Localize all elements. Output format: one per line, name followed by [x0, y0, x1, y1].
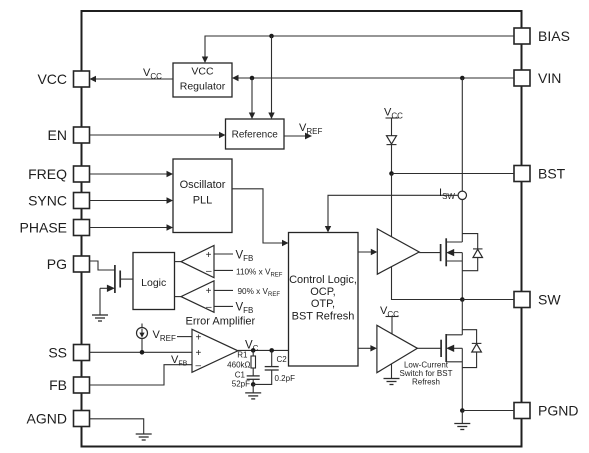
svg-text:+: +	[206, 286, 212, 297]
svg-text:BST: BST	[538, 166, 566, 182]
supply bar VCC low-side	[386, 316, 399, 318]
ground AGND	[136, 434, 152, 440]
pin PHASE	[20, 220, 90, 236]
wire Q1 source-body down to SW node	[461, 253, 463, 300]
svg-text:EN: EN	[48, 127, 67, 143]
pin BST	[514, 166, 566, 182]
block Reference	[226, 119, 285, 149]
op-amp low-side driver (BST refresh switch)	[377, 325, 418, 372]
svg-text:+: +	[196, 332, 202, 343]
wire VCC Regulator to VCC pin	[93, 78, 174, 80]
label Low-Current Switch for BST Refresh	[400, 361, 453, 387]
wire ISW sense to Control Logic top	[328, 195, 458, 229]
svg-text:VREF: VREF	[153, 329, 176, 343]
arrow Control Logic to low-side driver	[358, 347, 374, 349]
wire PG pin to Q3 drain	[90, 261, 115, 270]
diode BST charge	[387, 136, 397, 145]
resistor R1	[251, 350, 256, 376]
svg-text:VFB: VFB	[236, 302, 254, 316]
block Control Logic OCP OTP BST Refresh	[289, 233, 359, 367]
svg-text:SYNC: SYNC	[28, 193, 67, 209]
svg-text:OTP,: OTP,	[311, 298, 335, 310]
svg-text:ISW: ISW	[439, 187, 455, 201]
wire U6 minus input	[214, 305, 233, 307]
svg-text:+: +	[206, 250, 212, 261]
op-amp high-side gate driver	[377, 229, 419, 274]
wire Q3 source to ground	[99, 288, 101, 315]
svg-text:90% x VREF: 90% x VREF	[238, 287, 281, 298]
svg-text:Reference: Reference	[232, 130, 279, 141]
svg-text:VCC: VCC	[143, 67, 162, 81]
svg-text:FB: FB	[49, 377, 67, 393]
svg-text:BIAS: BIAS	[538, 28, 570, 44]
svg-text:VIN: VIN	[538, 70, 561, 86]
node C1 C2 ground junction	[251, 382, 256, 387]
comparator U6 power-good low	[181, 281, 214, 313]
wire U5 output to Logic	[175, 261, 182, 263]
pin PGND	[514, 403, 578, 419]
svg-text:Error Amplifier: Error Amplifier	[186, 316, 256, 328]
svg-text:0.2pF: 0.2pF	[275, 374, 296, 383]
wire PGND node to PGND pin	[462, 410, 514, 412]
node PGND junction	[460, 408, 465, 413]
wire BST node to high-side driver	[391, 174, 393, 237]
ground PG	[92, 315, 108, 321]
block VCC Regulator	[173, 63, 232, 97]
pin BIAS	[514, 28, 570, 44]
wire SW node to SW pin	[462, 299, 514, 301]
wire Oscillator to Control Logic	[232, 189, 286, 243]
svg-text:R1: R1	[237, 351, 248, 360]
svg-text:52pF: 52pF	[232, 379, 250, 388]
svg-text:PG: PG	[47, 256, 67, 272]
pin FREQ	[28, 166, 89, 182]
wire U6 plus input	[214, 289, 233, 291]
svg-text:FREQ: FREQ	[28, 166, 67, 182]
wire VCC bar to diode	[391, 118, 393, 136]
node VIN-switch junction	[460, 76, 465, 81]
block Logic	[133, 253, 175, 310]
svg-text:+: +	[196, 348, 202, 359]
wire FB to error amp	[90, 365, 193, 385]
current source I1 soft-start	[137, 324, 148, 353]
svg-text:VCC: VCC	[37, 71, 67, 87]
svg-text:–: –	[206, 302, 212, 313]
svg-text:Control Logic,: Control Logic,	[289, 274, 357, 286]
transistor Q1 high-side FET	[441, 238, 463, 266]
svg-text:–: –	[206, 266, 212, 277]
diode D2 body of Q2	[462, 330, 481, 368]
svg-text:VREF: VREF	[299, 122, 322, 136]
node SS current source junction	[140, 350, 145, 355]
pin EN	[48, 127, 90, 143]
wire diode to BST node	[391, 145, 393, 174]
capacitor C2	[253, 367, 279, 385]
svg-text:VFB: VFB	[171, 354, 188, 368]
ground low-side driver	[384, 379, 400, 385]
wire BIAS to VCC Regulator top	[205, 36, 514, 60]
pin SW	[514, 292, 561, 308]
supply bar VCC	[386, 117, 399, 119]
pin VCC	[37, 71, 89, 87]
op-amp U2 error amplifier	[192, 329, 238, 372]
wire BST node to BST pin	[392, 173, 515, 175]
wire to error amp ground	[252, 384, 254, 393]
arrow Control Logic to high-side driver	[358, 251, 374, 253]
svg-text:AGND: AGND	[27, 411, 67, 427]
svg-text:PLL: PLL	[193, 195, 213, 207]
diode D1 body of Q1	[462, 234, 482, 271]
wire SS to error amp	[90, 351, 193, 353]
current probe circle ISW	[458, 191, 466, 199]
svg-text:PGND: PGND	[538, 403, 578, 419]
wire U5 minus input	[214, 269, 233, 271]
IC boundary box	[82, 11, 522, 447]
wire U6 output to Logic	[175, 296, 182, 298]
wire VIN junction down to high-side FET drain	[461, 78, 463, 242]
ground error amp compensation	[245, 393, 261, 399]
wire driver output to Q2 gate	[417, 347, 441, 349]
svg-text:BST Refresh: BST Refresh	[292, 310, 355, 322]
svg-text:Refresh: Refresh	[412, 378, 440, 387]
svg-text:Oscillator: Oscillator	[180, 179, 226, 191]
node VIN-Reference junction	[250, 76, 255, 81]
svg-text:VCC: VCC	[191, 66, 214, 78]
svg-text:–: –	[196, 360, 202, 371]
arrow into VCC Regulator top	[202, 57, 208, 64]
svg-text:C2: C2	[277, 355, 288, 364]
block Oscillator PLL	[173, 159, 232, 233]
transistor Q2 low-side FET	[441, 334, 462, 362]
wire driver output to Q1 gate	[419, 252, 440, 254]
arrow into VCC pin	[90, 76, 97, 82]
svg-text:VFB: VFB	[236, 250, 254, 264]
wire VC error amp output to Control Logic	[238, 349, 289, 351]
pin SS	[48, 345, 89, 361]
node BIAS-Reference junction	[269, 34, 274, 39]
svg-text:SW: SW	[538, 292, 561, 308]
svg-text:SS: SS	[48, 345, 67, 361]
comparator U5 power-good high	[181, 246, 214, 278]
svg-text:Regulator: Regulator	[180, 81, 226, 93]
capacitor C1	[247, 376, 260, 385]
ground PGND	[454, 424, 470, 430]
wire PGND node to ground	[461, 411, 463, 424]
pin AGND	[27, 411, 90, 427]
wire EN to Reference left	[90, 134, 223, 136]
pin SYNC	[28, 193, 89, 209]
wire VCC to low-side driver top	[391, 317, 393, 335]
wire Q2 source-body down to PGND node	[461, 348, 463, 410]
arrow into VCC Regulator right	[232, 75, 239, 81]
svg-text:C1: C1	[235, 370, 246, 379]
node R1 top junction	[251, 348, 256, 353]
wire AGND to ground	[90, 419, 144, 434]
node BST junction	[389, 171, 394, 176]
transistor Q3 power-good open drain	[100, 265, 133, 293]
svg-text:OCP,: OCP,	[310, 286, 335, 298]
wire FREQ to Oscillator	[90, 173, 171, 175]
svg-text:Logic: Logic	[141, 277, 166, 289]
wire U5 plus input	[214, 253, 233, 255]
wire VREF output arrow	[284, 135, 306, 137]
pin VIN	[514, 70, 561, 86]
pin FB	[49, 377, 89, 393]
pin PG	[47, 256, 90, 272]
wire SW node down to Q2 drain	[461, 300, 463, 335]
arrow into Reference left	[219, 132, 226, 138]
svg-text:460kΩ: 460kΩ	[227, 361, 250, 370]
svg-text:PHASE: PHASE	[20, 220, 67, 236]
node C2 top junction	[269, 348, 274, 353]
svg-text:110% x VREF: 110% x VREF	[236, 268, 283, 279]
wire VIN junction to Reference top	[251, 78, 253, 116]
node SW junction	[460, 297, 465, 302]
wire SYNC to Oscillator	[90, 200, 171, 202]
wire PHASE to Oscillator	[90, 227, 171, 229]
wire VIN to VCC Regulator right	[235, 77, 514, 79]
wire driver low rail to SW	[392, 267, 463, 300]
arrow into Reference top (left)	[249, 113, 255, 120]
wire low-side driver ground stem	[391, 364, 393, 379]
wire VREF to error amp input	[177, 336, 192, 338]
wire junction to Reference top	[271, 36, 273, 116]
wire C2 branch	[271, 350, 273, 366]
arrow into Reference top (right)	[268, 113, 274, 120]
